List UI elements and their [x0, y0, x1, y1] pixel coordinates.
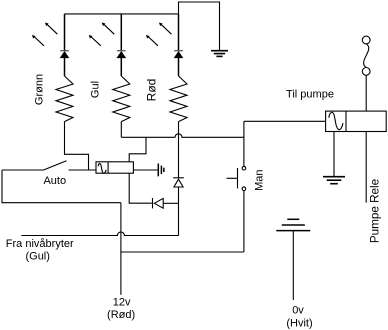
wire: resistor bus to Man button, hops over red branch [121, 134, 244, 138]
wire: riser to top ground rail [179, 2, 220, 50]
wire: coil to side ground [133, 169, 157, 171]
svg-text:(Gul): (Gul) [25, 251, 49, 263]
svg-text:(Hvit): (Hvit) [286, 318, 312, 330]
ground (sideways, coil return) [158, 164, 164, 177]
LED D-yellow [89, 14, 126, 76]
svg-text:Grønn: Grønn [34, 74, 46, 105]
svg-text:12v: 12v [113, 297, 131, 309]
LED D-red [146, 14, 183, 76]
pushbutton SW-Man [227, 121, 246, 252]
wire: top LED bus [65, 13, 179, 15]
diode D-up (on red branch, open triangle) [173, 178, 184, 236]
wire: yellow resistor down [120, 122, 122, 138]
wire: 12v branch to Man button [121, 251, 244, 253]
wire: Fra nivåbryter line, hops over 12v riser [21, 232, 178, 235]
relay coil K1 (small box with sine) [96, 162, 133, 173]
resistor R-red [170, 76, 187, 122]
relay K2 box (Til pumpe) [326, 111, 387, 131]
resistor R-green [56, 76, 73, 122]
LED D-green [32, 14, 69, 76]
wire: relay coil to ground [333, 132, 335, 177]
0v terminal (inverted ground) [276, 219, 310, 230]
connector circles (pump output) [362, 36, 370, 75]
wire: 0v lead [292, 231, 294, 300]
ground (top, for LEDs) [211, 51, 228, 57]
wire: red resistor down to diode [178, 122, 180, 178]
wire: green resistor to switch row [65, 122, 89, 170]
wire: junction drop to coil box top [129, 137, 146, 162]
svg-text:Man: Man [254, 169, 266, 190]
wire: switch left leg down and across [2, 170, 121, 203]
svg-text:0v: 0v [292, 305, 304, 317]
switch SW-Auto [2, 161, 96, 170]
resistor R-yellow [113, 76, 130, 122]
svg-text:Pumpe Rele: Pumpe Rele [369, 179, 382, 243]
svg-text:(Rød): (Rød) [107, 309, 135, 321]
wire: connector down to relay box [365, 75, 367, 111]
wire: coil box bottom to diode row [129, 173, 152, 203]
wire: pumpe rele line below box [365, 132, 367, 203]
svg-text:Fra nivåbryter: Fra nivåbryter [6, 238, 74, 250]
wire: 12v riser [120, 203, 122, 295]
diode D-left (points left) [153, 198, 179, 208]
svg-text:Rød: Rød [145, 79, 159, 102]
svg-text:Auto: Auto [43, 175, 66, 187]
wire: Man branch to relay box [244, 120, 326, 122]
ground (relay coil return) [323, 177, 345, 184]
svg-text:Til pumpe: Til pumpe [286, 89, 334, 101]
svg-text:Gul: Gul [90, 81, 102, 98]
